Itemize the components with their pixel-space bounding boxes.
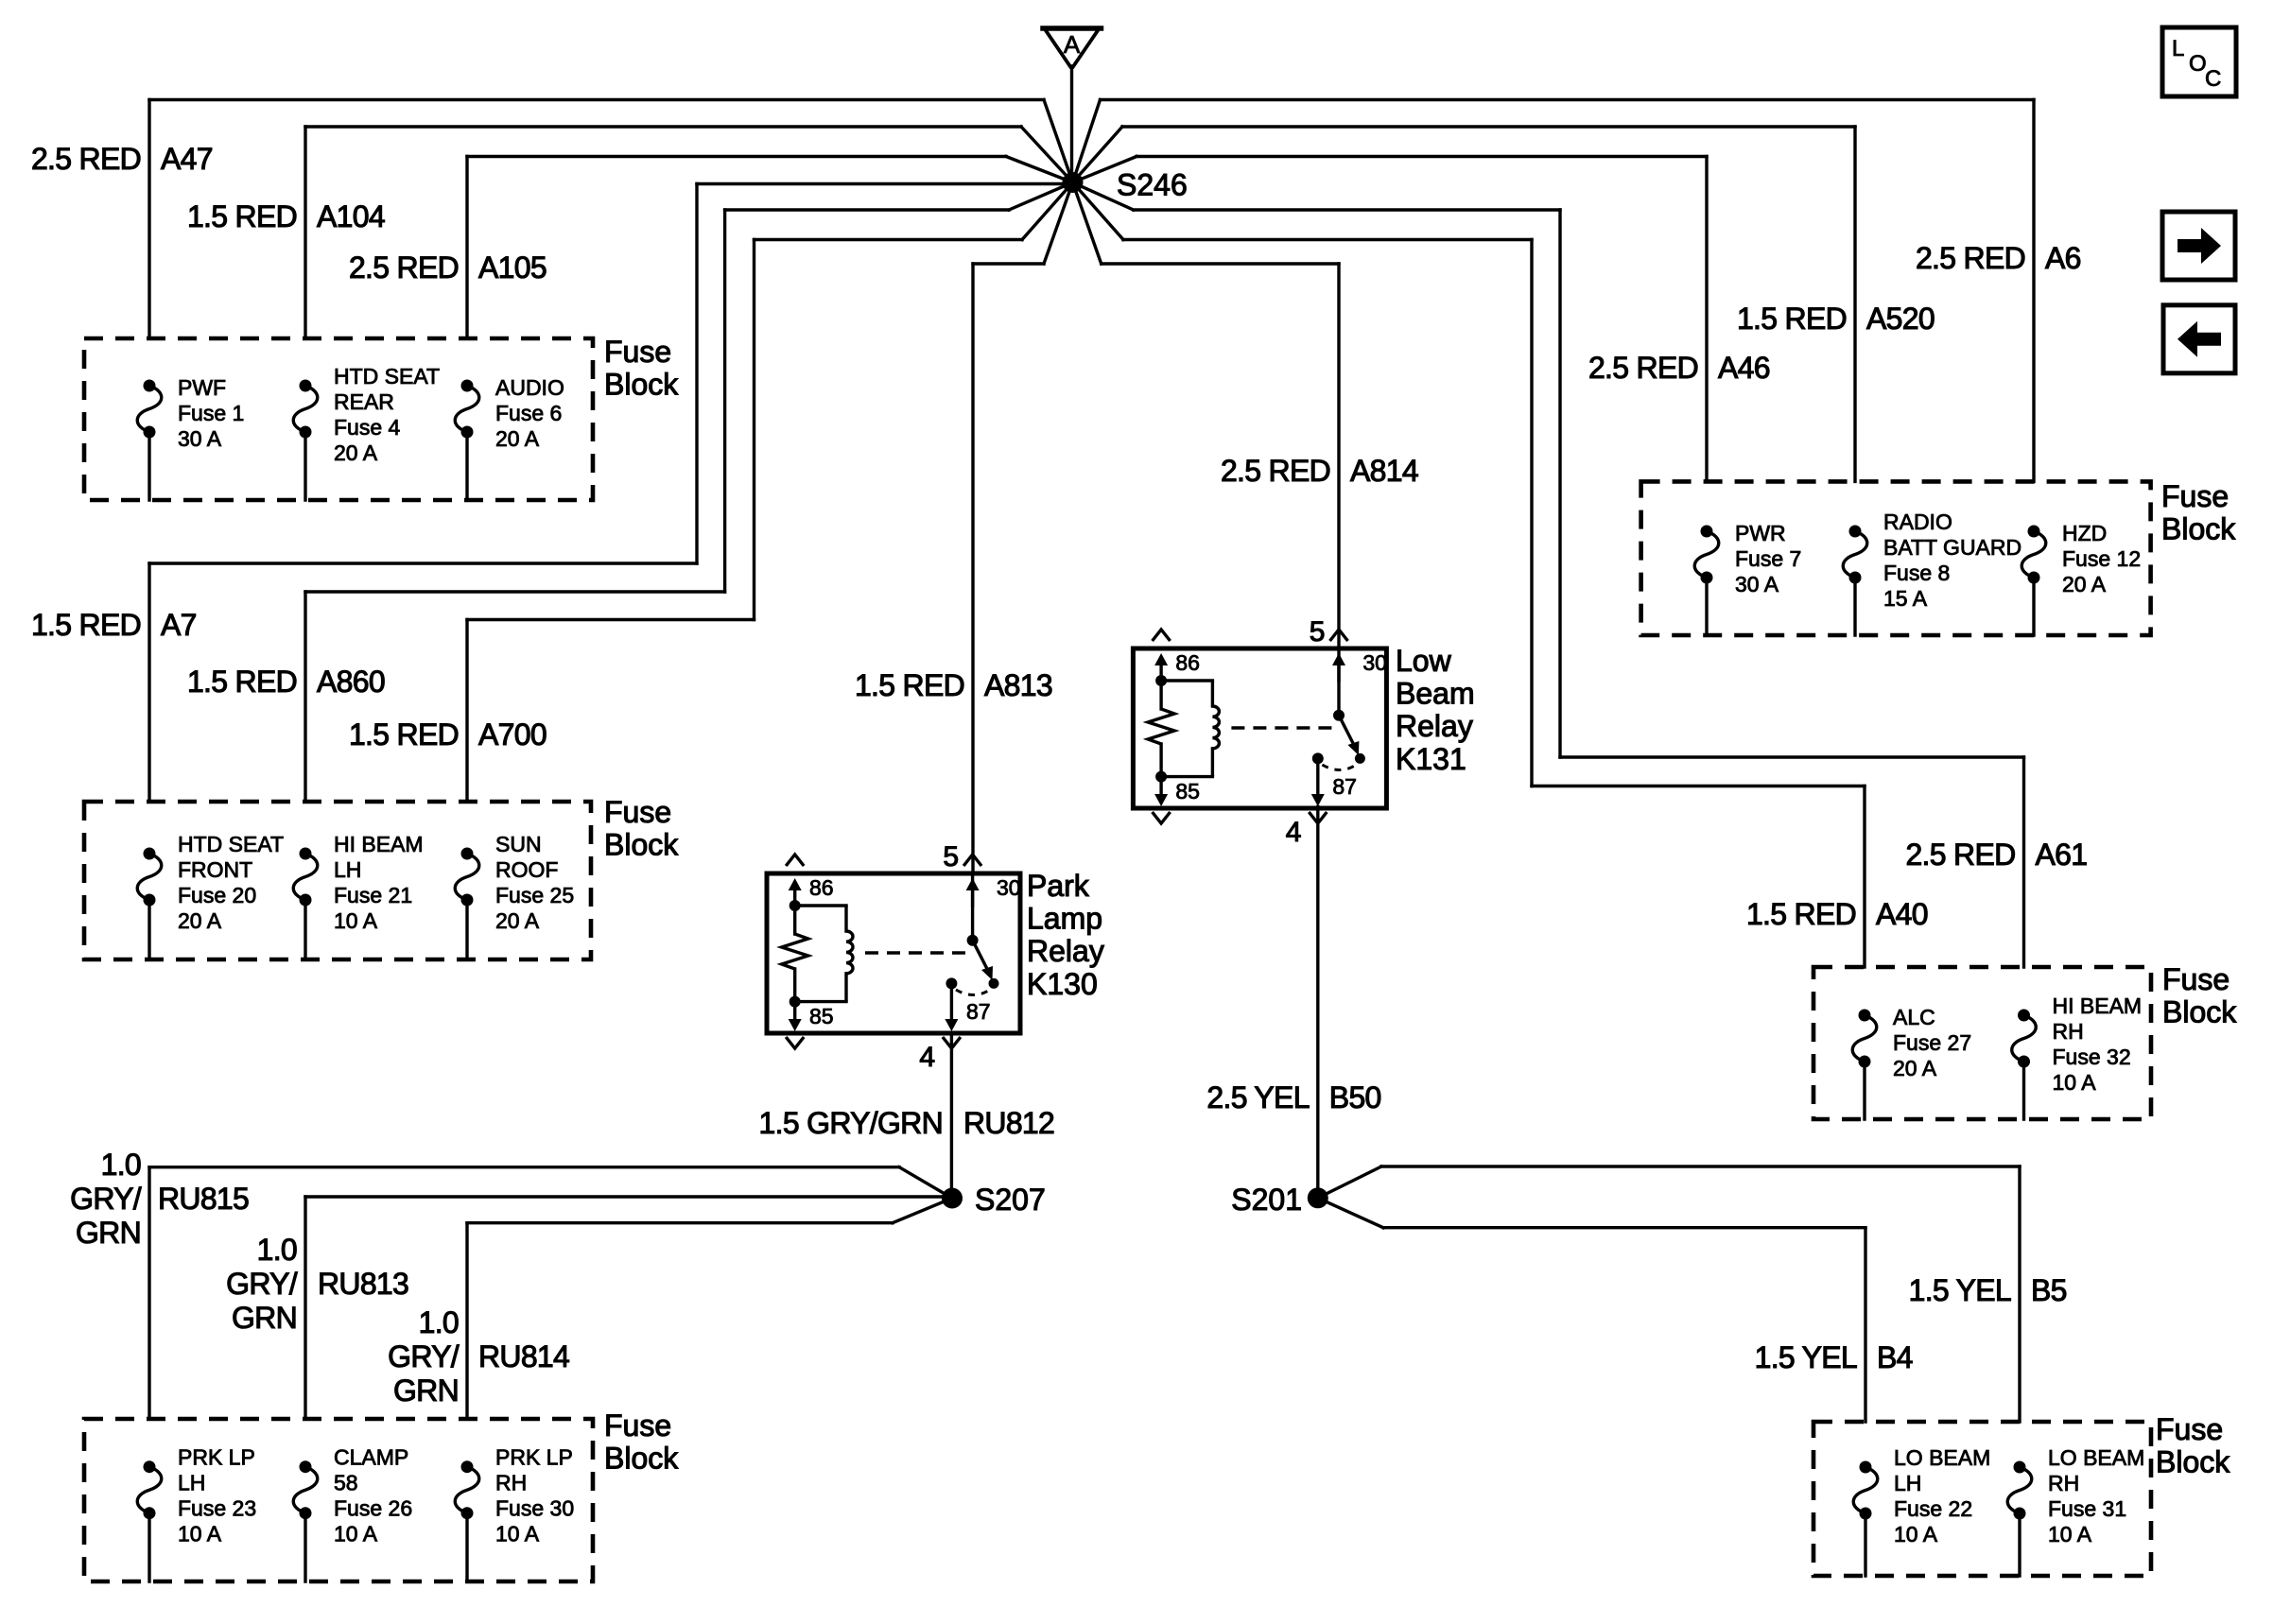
svg-text:20 A: 20 A: [178, 908, 222, 933]
wire 1.0 GRY/GRN RU813 : S207 to Fuse26: [305, 1197, 943, 1419]
svg-text:2.5 YEL: 2.5 YEL: [1206, 1080, 1309, 1114]
svg-text:K131: K131: [1396, 742, 1466, 776]
svg-text:1.5 RED: 1.5 RED: [349, 717, 459, 752]
wire 2.5 RED A6 : S246 to Fuse12: [1073, 100, 2035, 482]
svg-text:20 A: 20 A: [1893, 1056, 1937, 1080]
pin 30 arrow: [971, 887, 974, 906]
svg-text:LH: LH: [1894, 1471, 1921, 1495]
svg-text:Fuse 32: Fuse 32: [2053, 1045, 2131, 1069]
svg-text:Low: Low: [1396, 644, 1452, 678]
switch arm: [1337, 648, 1340, 716]
fuse F1 PWF 30A: [137, 375, 244, 500]
wire 1.5 YEL B4 : S201 to Fuse22: [1318, 1198, 1865, 1422]
svg-text:Block: Block: [604, 1442, 679, 1476]
svg-text:5: 5: [1310, 616, 1326, 648]
wire 1.5 YEL B5 : S201 to Fuse31: [1318, 1166, 2020, 1422]
fuse F7 PWR 30A: [1694, 521, 1801, 635]
svg-text:1.5 RED: 1.5 RED: [1737, 302, 1847, 336]
wire 2.5 RED A105 : S246 to Fuse6: [467, 157, 1073, 339]
svg-text:Fuse: Fuse: [604, 795, 671, 829]
svg-text:20 A: 20 A: [334, 441, 378, 465]
svg-text:PRK LP: PRK LP: [495, 1445, 573, 1470]
right-arrow legend box: [2162, 212, 2235, 280]
svg-text:20 A: 20 A: [495, 426, 540, 451]
svg-text:A860: A860: [317, 665, 385, 699]
svg-text:A520: A520: [1866, 302, 1935, 336]
svg-text:S246: S246: [1117, 168, 1188, 202]
svg-text:1.5 GRY/GRN: 1.5 GRY/GRN: [759, 1106, 943, 1140]
wire 2.5 RED A814 : S246 to Low Beam Relay pin 30: [1073, 182, 1340, 648]
fuse F23 PRK LP LH 10A: [137, 1445, 256, 1581]
svg-text:10 A: 10 A: [178, 1522, 222, 1546]
wire 1.5 RED A40 : S246 to Fuse27: [1073, 182, 1865, 967]
svg-text:1.5 RED: 1.5 RED: [187, 665, 297, 699]
svg-text:1.5 YEL: 1.5 YEL: [1909, 1273, 2011, 1307]
svg-text:PWF: PWF: [178, 375, 226, 400]
svg-text:B50: B50: [1329, 1080, 1381, 1114]
svg-text:2.5 RED: 2.5 RED: [31, 142, 141, 176]
svg-text:L: L: [2172, 36, 2184, 61]
svg-text:10 A: 10 A: [1894, 1522, 1938, 1546]
fuse F27 ALC 20A: [1852, 1005, 1971, 1119]
svg-text:RU814: RU814: [478, 1339, 569, 1373]
svg-text:A105: A105: [478, 251, 547, 285]
svg-text:HI BEAM: HI BEAM: [2053, 993, 2143, 1018]
svg-text:GRY/: GRY/: [388, 1339, 460, 1373]
svg-text:A104: A104: [317, 199, 385, 233]
svg-text:Block: Block: [2162, 995, 2237, 1029]
svg-text:Fuse 30: Fuse 30: [495, 1496, 574, 1521]
svg-text:Fuse 26: Fuse 26: [334, 1496, 412, 1521]
svg-text:A61: A61: [2036, 838, 2088, 872]
svg-text:15 A: 15 A: [1883, 586, 1928, 611]
svg-text:87: 87: [966, 999, 991, 1024]
wire 2.5 RED A47 : S246 to Fuse1 PWF: [149, 100, 1073, 339]
wire 1.5 RED A813 : S246 to Park Lamp Relay pin 30: [973, 182, 1073, 873]
svg-text:CLAMP: CLAMP: [334, 1445, 408, 1470]
svg-text:RH: RH: [495, 1471, 527, 1495]
svg-text:Fuse: Fuse: [604, 335, 671, 369]
svg-text:C: C: [2205, 66, 2221, 92]
svg-text:Fuse 1: Fuse 1: [178, 401, 244, 425]
svg-text:2.5 RED: 2.5 RED: [1588, 351, 1698, 385]
pin 30 arrow: [1337, 662, 1340, 681]
svg-text:4: 4: [1286, 817, 1302, 848]
svg-text:HZD: HZD: [2062, 521, 2107, 545]
fuse F30 PRK LP RH 10A: [455, 1445, 574, 1581]
svg-text:A47: A47: [161, 142, 213, 176]
svg-text:Fuse: Fuse: [2162, 962, 2230, 996]
svg-text:Beam: Beam: [1396, 677, 1475, 711]
svg-text:GRN: GRN: [232, 1301, 297, 1335]
fuse F26 CLAMP 58 10A: [293, 1445, 412, 1581]
pin 86 top chevron: [1153, 630, 1171, 641]
svg-text:1.5 RED: 1.5 RED: [187, 199, 297, 233]
pin 86 arrow: [793, 887, 796, 906]
svg-text:Fuse 7: Fuse 7: [1735, 546, 1801, 571]
svg-text:ROOF: ROOF: [495, 857, 558, 882]
coil-switch dashed link: [1231, 726, 1331, 729]
svg-text:5: 5: [943, 841, 959, 872]
fuse block mid-left: [84, 802, 591, 959]
relay coil: [1161, 679, 1212, 682]
pin 85 bottom chevron: [1153, 812, 1171, 823]
svg-text:Fuse 4: Fuse 4: [334, 415, 401, 440]
fuse block top-right: [1641, 481, 2151, 635]
svg-text:A6: A6: [2045, 241, 2081, 275]
svg-text:Relay: Relay: [1396, 709, 1473, 743]
svg-text:PRK LP: PRK LP: [178, 1445, 255, 1470]
svg-text:10 A: 10 A: [334, 908, 378, 933]
fuse F12 HZD 20A: [2021, 521, 2141, 635]
svg-text:Fuse 20: Fuse 20: [178, 883, 256, 907]
switch dashed arc: [1322, 765, 1356, 770]
svg-text:Fuse: Fuse: [2161, 479, 2229, 513]
svg-text:20 A: 20 A: [2062, 572, 2107, 596]
svg-text:RU815: RU815: [158, 1182, 249, 1216]
svg-text:LH: LH: [334, 857, 361, 882]
svg-text:1.0: 1.0: [101, 1148, 141, 1182]
wire from connector A to S246: [1070, 66, 1073, 175]
svg-text:85: 85: [809, 1004, 834, 1028]
svg-text:1.5 RED: 1.5 RED: [855, 668, 964, 702]
pin 86 top chevron: [786, 855, 804, 866]
svg-text:2.5 RED: 2.5 RED: [349, 251, 459, 285]
svg-text:Fuse 23: Fuse 23: [178, 1496, 256, 1521]
fuse F8 RADIO BATT GUARD 15A: [1843, 510, 2021, 635]
svg-text:Park: Park: [1027, 869, 1090, 903]
svg-text:85: 85: [1175, 779, 1200, 803]
fuse F22 LO BEAM LH 10A: [1853, 1445, 1990, 1576]
svg-text:B4: B4: [1877, 1340, 1913, 1374]
connector triangle A: [1043, 28, 1102, 67]
wire 1.5 RED A520 : S246 to Fuse8: [1073, 127, 1856, 481]
svg-text:1.5 YEL: 1.5 YEL: [1755, 1340, 1857, 1374]
fuse F21 HI BEAM LH 10A: [293, 832, 423, 959]
splice S207: [942, 1188, 963, 1209]
svg-text:LH: LH: [178, 1471, 205, 1495]
wire 2.5 YEL B50 : K131 pin 4 to S201: [1316, 807, 1319, 1199]
svg-text:1.0: 1.0: [257, 1233, 297, 1267]
svg-text:Fuse 22: Fuse 22: [1894, 1496, 1972, 1521]
svg-text:RH: RH: [2053, 1019, 2084, 1044]
svg-text:Block: Block: [604, 368, 679, 402]
svg-text:AUDIO: AUDIO: [495, 375, 564, 400]
pin 87 arrow: [946, 977, 957, 989]
splice S246: [1063, 172, 1084, 193]
svg-text:4: 4: [919, 1042, 935, 1073]
svg-text:Fuse 21: Fuse 21: [334, 883, 412, 907]
svg-text:A46: A46: [1718, 351, 1770, 385]
svg-text:10 A: 10 A: [334, 1522, 378, 1546]
svg-text:REAR: REAR: [334, 389, 394, 414]
svg-text:Fuse 8: Fuse 8: [1883, 561, 1950, 585]
svg-text:GRN: GRN: [76, 1216, 141, 1250]
fuse block bottom-right: [1813, 1422, 2151, 1576]
svg-text:LO BEAM: LO BEAM: [1894, 1445, 1990, 1470]
wire 1.5 GRY/GRN RU812 : K130 pin 4 to S207: [950, 1034, 953, 1199]
svg-text:30: 30: [997, 875, 1021, 900]
svg-text:Fuse: Fuse: [2156, 1412, 2223, 1446]
svg-text:1.5 RED: 1.5 RED: [1746, 897, 1856, 931]
fuse F6 AUDIO 20A: [455, 375, 564, 500]
svg-text:2.5 RED: 2.5 RED: [1916, 241, 2025, 275]
svg-text:Fuse 6: Fuse 6: [495, 401, 562, 425]
fuse F25 SUN ROOF 20A: [455, 832, 574, 959]
svg-text:58: 58: [334, 1471, 358, 1495]
pin 87 arrow: [1312, 752, 1324, 764]
svg-text:RU813: RU813: [318, 1267, 408, 1301]
pin 85 bottom chevron: [786, 1037, 804, 1048]
pin 86 arrow: [1159, 662, 1162, 681]
svg-text:ALC: ALC: [1893, 1005, 1935, 1029]
svg-text:A: A: [1064, 30, 1081, 59]
svg-text:PWR: PWR: [1735, 521, 1786, 545]
splice S201: [1308, 1187, 1328, 1208]
svg-text:10 A: 10 A: [2048, 1522, 2092, 1546]
pin 85 arrow: [1159, 777, 1162, 798]
svg-text:Block: Block: [604, 828, 679, 862]
svg-text:A40: A40: [1876, 897, 1928, 931]
relay K130 Park Lamp Relay: [767, 841, 1104, 1073]
svg-text:1.5 RED: 1.5 RED: [31, 608, 141, 642]
relay coil: [795, 904, 846, 907]
left-arrow legend box: [2163, 305, 2235, 373]
switch arm: [971, 873, 974, 941]
relay coil resistor: [793, 906, 796, 934]
fuse F20 HTD SEAT FRONT 20A: [137, 832, 284, 959]
svg-text:20 A: 20 A: [495, 908, 540, 933]
svg-text:Fuse 12: Fuse 12: [2062, 546, 2141, 571]
svg-text:Fuse 27: Fuse 27: [1893, 1030, 1971, 1055]
LOC legend box: [2162, 27, 2236, 96]
fuse F32 HI BEAM RH 10A: [2012, 993, 2142, 1119]
svg-text:RH: RH: [2048, 1471, 2079, 1495]
svg-text:30 A: 30 A: [1735, 572, 1779, 596]
svg-text:2.5 RED: 2.5 RED: [1905, 838, 2015, 872]
wire 1.5 RED A700 : S246 staircase to Fuse25: [467, 182, 1073, 802]
svg-text:S207: S207: [975, 1183, 1046, 1217]
svg-text:HTD SEAT: HTD SEAT: [178, 832, 284, 856]
svg-text:Block: Block: [2161, 512, 2236, 546]
svg-text:BATT GUARD: BATT GUARD: [1883, 535, 2021, 560]
svg-text:Fuse 31: Fuse 31: [2048, 1496, 2126, 1521]
svg-text:GRY/: GRY/: [226, 1267, 298, 1301]
svg-text:SUN: SUN: [495, 832, 542, 856]
svg-text:30: 30: [1362, 650, 1387, 675]
fuse F4 HTD SEAT REAR 20A: [293, 364, 440, 500]
fuse block bottom-left: [84, 1419, 593, 1581]
svg-text:A813: A813: [984, 668, 1052, 702]
svg-text:Fuse 25: Fuse 25: [495, 883, 574, 907]
switch dashed arc: [956, 990, 990, 995]
svg-text:HTD SEAT: HTD SEAT: [334, 364, 440, 389]
svg-text:GRN: GRN: [393, 1373, 459, 1408]
svg-text:HI BEAM: HI BEAM: [334, 832, 424, 856]
svg-text:GRY/: GRY/: [70, 1182, 142, 1216]
svg-text:RU812: RU812: [963, 1106, 1054, 1140]
wire 2.5 RED A61 : S246 to Fuse32: [1073, 182, 2024, 967]
fuse block top-left: [84, 338, 593, 500]
wire 1.5 RED A7 : S246 staircase to Fuse20: [149, 184, 1066, 803]
svg-text:B5: B5: [2031, 1273, 2067, 1307]
svg-text:Relay: Relay: [1027, 934, 1104, 968]
svg-text:A814: A814: [1350, 454, 1418, 488]
wire 1.0 GRY/GRN RU814 : S207 to Fuse30: [467, 1199, 952, 1420]
svg-text:S201: S201: [1231, 1183, 1302, 1217]
wire 1.5 RED A104 : S246 to Fuse4: [305, 127, 1073, 338]
svg-text:A700: A700: [478, 717, 547, 752]
wire 1.5 RED A860 : S246 staircase to Fuse21: [305, 182, 1073, 802]
svg-text:2.5 RED: 2.5 RED: [1221, 454, 1330, 488]
pin 85 arrow: [793, 1002, 796, 1023]
svg-text:30 A: 30 A: [178, 426, 222, 451]
svg-text:86: 86: [809, 875, 834, 900]
svg-text:RADIO: RADIO: [1883, 510, 1952, 534]
fuse block mid-right: [1813, 967, 2151, 1119]
coil-switch dashed link: [865, 951, 965, 954]
svg-text:Lamp: Lamp: [1027, 902, 1102, 936]
svg-text:K130: K130: [1027, 967, 1098, 1001]
svg-text:10 A: 10 A: [495, 1522, 540, 1546]
wire 2.5 RED A46 : S246 to Fuse7: [1073, 157, 1708, 482]
fuse F31 LO BEAM RH 10A: [2007, 1445, 2144, 1576]
svg-text:1.0: 1.0: [419, 1305, 459, 1339]
svg-text:87: 87: [1332, 774, 1357, 799]
svg-text:A7: A7: [161, 608, 197, 642]
svg-text:FRONT: FRONT: [178, 857, 252, 882]
svg-text:Block: Block: [2156, 1445, 2230, 1479]
relay K131 Low Beam Relay: [1133, 616, 1474, 848]
relay coil resistor: [1159, 681, 1162, 709]
svg-text:LO BEAM: LO BEAM: [2048, 1445, 2144, 1470]
svg-text:10 A: 10 A: [2053, 1070, 2097, 1095]
svg-text:Fuse: Fuse: [604, 1408, 671, 1443]
svg-text:86: 86: [1175, 650, 1200, 675]
svg-text:O: O: [2189, 51, 2207, 77]
wire 1.0 GRY/GRN RU815 : S207 to Fuse23: [149, 1167, 952, 1419]
